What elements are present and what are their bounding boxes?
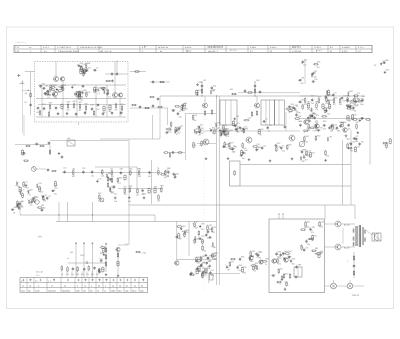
svg-text:1k: 1k xyxy=(212,133,214,135)
svg-text:G51: G51 xyxy=(176,174,179,176)
svg-text:R25: R25 xyxy=(212,128,215,130)
svg-text:u: u xyxy=(91,286,92,288)
svg-text:u 0: u 0 xyxy=(358,51,361,53)
svg-text:T84: T84 xyxy=(143,193,146,195)
svg-text:R71: R71 xyxy=(236,123,239,125)
svg-text:L76: L76 xyxy=(98,179,101,181)
svg-text:R50: R50 xyxy=(386,70,389,72)
svg-text:0,1: 0,1 xyxy=(97,93,100,95)
svg-text:R39: R39 xyxy=(201,224,204,226)
svg-text:C24: C24 xyxy=(311,96,314,98)
svg-text:5k6: 5k6 xyxy=(101,175,104,177)
svg-text:T 5: T 5 xyxy=(125,244,128,246)
svg-text:68: 68 xyxy=(179,239,181,241)
svg-text:0,1: 0,1 xyxy=(325,103,328,105)
svg-text:L75: L75 xyxy=(355,136,358,138)
svg-text:L98: L98 xyxy=(315,101,318,103)
svg-text:68: 68 xyxy=(13,212,15,214)
svg-text:S78: S78 xyxy=(98,193,101,195)
svg-text:G30: G30 xyxy=(317,136,320,138)
svg-text:G91: G91 xyxy=(307,221,310,223)
svg-text:0,1: 0,1 xyxy=(108,97,111,99)
svg-text:2n2: 2n2 xyxy=(194,120,197,122)
svg-text:T83: T83 xyxy=(355,122,358,124)
svg-text:C6: C6 xyxy=(96,68,98,70)
svg-text:68: 68 xyxy=(351,151,353,153)
svg-text:100: 100 xyxy=(305,141,308,143)
svg-text:u040u: u040u xyxy=(111,290,116,292)
svg-text:G39: G39 xyxy=(277,143,280,145)
svg-text:2n2: 2n2 xyxy=(311,103,314,105)
svg-text:47k: 47k xyxy=(86,274,89,276)
svg-text:4k7: 4k7 xyxy=(79,110,82,112)
svg-text:C1: C1 xyxy=(179,111,181,113)
svg-text:10n: 10n xyxy=(351,110,354,112)
svg-text:S64: S64 xyxy=(288,145,291,147)
svg-text:u04u: u04u xyxy=(140,290,144,292)
svg-text:C9: C9 xyxy=(334,92,336,94)
svg-text:G29: G29 xyxy=(67,102,70,104)
svg-text:47k: 47k xyxy=(323,129,326,131)
svg-text:C30: C30 xyxy=(256,144,259,146)
svg-text:47k: 47k xyxy=(226,136,229,138)
svg-text:u4: u4 xyxy=(112,286,114,288)
svg-text:14.1k: 14.1k xyxy=(80,255,84,257)
svg-text:R59: R59 xyxy=(121,104,124,106)
svg-text:S88: S88 xyxy=(87,63,90,65)
svg-text:4 0 u: 4 0 u xyxy=(36,275,40,277)
svg-text:68: 68 xyxy=(349,121,351,123)
svg-text:1k: 1k xyxy=(268,130,270,132)
svg-text:G95: G95 xyxy=(295,105,298,107)
svg-text:5k6: 5k6 xyxy=(330,130,333,132)
svg-text:C8: C8 xyxy=(48,196,50,198)
svg-text:4k7: 4k7 xyxy=(305,160,308,162)
svg-text:1: 1 xyxy=(30,51,31,53)
svg-text:10n: 10n xyxy=(197,262,200,264)
svg-text:5k6: 5k6 xyxy=(236,132,239,134)
svg-text:1.40uu0 e0n 04u 4.0n1 0: 1.40uu0 e0n 04u 4.0n1 0 xyxy=(58,51,79,53)
svg-text:4k7: 4k7 xyxy=(38,188,41,190)
svg-text:⌇: ⌇ xyxy=(347,260,348,263)
svg-text:L39: L39 xyxy=(203,80,206,82)
svg-text:100: 100 xyxy=(243,272,246,274)
svg-text:4k7: 4k7 xyxy=(301,83,304,85)
svg-text:L.Bu.14n 8a 2u 4 0 1 nl 40: L.Bu.14n 8a 2u 4 0 1 nl 40 xyxy=(80,47,102,49)
svg-text:T47: T47 xyxy=(310,118,313,120)
svg-text:47k: 47k xyxy=(250,261,253,263)
svg-text:2 0: 2 0 xyxy=(250,51,253,53)
svg-text:5k6: 5k6 xyxy=(326,155,329,157)
svg-text:40u04u40u: 40u04u40u xyxy=(62,290,70,292)
svg-text:S33: S33 xyxy=(318,96,321,98)
svg-text:100: 100 xyxy=(314,76,317,78)
svg-text:4k7: 4k7 xyxy=(178,133,181,135)
svg-text:T46: T46 xyxy=(297,113,300,115)
svg-text:2n2: 2n2 xyxy=(97,109,100,111)
svg-text:T53: T53 xyxy=(35,197,38,199)
svg-text:G89: G89 xyxy=(298,264,301,266)
svg-text:0 u04n0 1: 0 u04n0 1 xyxy=(342,47,350,49)
svg-text:500: 500 xyxy=(70,252,73,254)
svg-text:S35: S35 xyxy=(217,122,220,124)
svg-text:1u: 1u xyxy=(22,286,24,288)
svg-text:100: 100 xyxy=(327,113,330,115)
svg-text:R91: R91 xyxy=(164,172,167,174)
svg-text:G13: G13 xyxy=(307,101,310,103)
svg-text:10n: 10n xyxy=(308,130,311,132)
svg-text:5 a 1.2: 5 a 1.2 xyxy=(43,47,49,49)
svg-text:10n: 10n xyxy=(355,141,358,143)
svg-text:220: 220 xyxy=(202,268,205,270)
svg-text:S95: S95 xyxy=(353,115,356,117)
svg-text:0,1: 0,1 xyxy=(47,97,50,99)
svg-text:S49: S49 xyxy=(119,178,122,180)
svg-text:C11: C11 xyxy=(330,100,333,102)
svg-text:10n: 10n xyxy=(174,177,177,179)
svg-text:0 u: 0 u xyxy=(51,286,54,288)
svg-text:R51: R51 xyxy=(301,99,304,101)
svg-text:L91: L91 xyxy=(25,182,28,184)
svg-text:47k: 47k xyxy=(81,274,84,276)
svg-text:T42: T42 xyxy=(213,227,216,229)
svg-text:S12: S12 xyxy=(304,227,307,229)
svg-text:S11: S11 xyxy=(280,268,283,270)
svg-text:1u: 1u xyxy=(84,286,86,288)
svg-text:0u: 0u xyxy=(126,286,128,288)
svg-text:-–|⊦-·: -–|⊦-· xyxy=(37,235,43,239)
svg-text:T96: T96 xyxy=(314,79,317,81)
svg-text:1.4 4: 1.4 4 xyxy=(15,51,19,53)
svg-text:1k: 1k xyxy=(265,264,267,266)
svg-text:C93: C93 xyxy=(38,183,41,185)
svg-text:S89: S89 xyxy=(315,248,318,250)
svg-text:c u 4 1 u . 1 n: c u 4 1 u . 1 n xyxy=(15,42,26,44)
svg-text:R84: R84 xyxy=(138,169,141,171)
svg-text:C55: C55 xyxy=(343,96,346,98)
svg-text:T41: T41 xyxy=(63,85,66,87)
svg-text:100: 100 xyxy=(303,65,306,67)
svg-text:G98: G98 xyxy=(339,122,342,124)
svg-text:G32: G32 xyxy=(315,122,318,124)
svg-text:S84: S84 xyxy=(349,91,352,93)
svg-text:2n2: 2n2 xyxy=(339,104,342,106)
svg-text:C93: C93 xyxy=(321,222,324,224)
svg-text:2n2: 2n2 xyxy=(157,201,160,203)
svg-text:L66: L66 xyxy=(299,121,302,123)
svg-text:4k7: 4k7 xyxy=(115,109,118,111)
svg-text:1 × 100: 1 × 100 xyxy=(140,252,146,255)
svg-text:T35: T35 xyxy=(82,168,85,170)
svg-text:C15: C15 xyxy=(114,194,117,196)
svg-text:S78: S78 xyxy=(214,253,217,255)
svg-text:C44: C44 xyxy=(248,118,251,120)
svg-text:10n: 10n xyxy=(91,176,94,178)
svg-text:5k6: 5k6 xyxy=(52,90,55,92)
svg-text:4k7: 4k7 xyxy=(136,194,139,196)
svg-text:G45: G45 xyxy=(208,261,211,263)
svg-text:S50: S50 xyxy=(225,144,228,146)
svg-text:C47: C47 xyxy=(21,201,24,203)
svg-text:G13: G13 xyxy=(291,104,294,106)
svg-text:2n2: 2n2 xyxy=(214,258,217,260)
svg-text:40u: 40u xyxy=(28,290,31,292)
svg-text:L35: L35 xyxy=(91,105,94,107)
svg-text:2n2: 2n2 xyxy=(138,176,141,178)
svg-text:R63: R63 xyxy=(323,121,326,123)
svg-text:R90: R90 xyxy=(278,252,281,254)
svg-text:S48: S48 xyxy=(258,147,261,149)
svg-text:u04u: u04u xyxy=(125,290,129,292)
svg-text:G60: G60 xyxy=(254,265,257,267)
svg-text:S20: S20 xyxy=(213,85,216,87)
svg-text:S47: S47 xyxy=(224,128,227,130)
svg-text:G18: G18 xyxy=(308,239,311,241)
svg-text:L44: L44 xyxy=(305,154,308,156)
svg-text:C74: C74 xyxy=(111,186,114,188)
svg-text:S71: S71 xyxy=(124,187,127,189)
svg-text:S32: S32 xyxy=(244,150,247,152)
svg-text:G88: G88 xyxy=(212,89,215,91)
svg-text:G88: G88 xyxy=(160,186,163,188)
svg-text:40: 40 xyxy=(98,286,100,288)
svg-text:G67: G67 xyxy=(265,259,268,261)
svg-text:1k: 1k xyxy=(257,257,259,259)
svg-text:5k6: 5k6 xyxy=(292,264,295,266)
svg-text:T20: T20 xyxy=(361,141,364,143)
svg-text:C1: C1 xyxy=(265,119,267,121)
svg-text:47k: 47k xyxy=(304,104,307,106)
svg-text:T81: T81 xyxy=(301,78,304,80)
svg-text:0,1: 0,1 xyxy=(207,238,210,240)
svg-text:220: 220 xyxy=(57,92,60,94)
svg-text:G59: G59 xyxy=(129,169,132,171)
svg-text:220: 220 xyxy=(207,258,210,260)
svg-text:C9: C9 xyxy=(73,85,75,87)
svg-text:S63: S63 xyxy=(292,258,295,260)
svg-text:R36: R36 xyxy=(241,257,244,259)
svg-text:R80: R80 xyxy=(385,60,388,62)
svg-text:R88: R88 xyxy=(129,186,132,188)
svg-text:u0n 0 44 . 2: u0n 0 44 . 2 xyxy=(208,51,218,53)
svg-text:100: 100 xyxy=(201,229,204,231)
svg-text:10n: 10n xyxy=(204,275,207,277)
svg-text:0,1: 0,1 xyxy=(213,232,216,234)
svg-text:u1u40: u1u40 xyxy=(35,290,40,292)
svg-text:47k: 47k xyxy=(289,112,292,114)
svg-text:T65: T65 xyxy=(87,92,90,94)
svg-text:R93: R93 xyxy=(320,253,323,255)
svg-text:2n2: 2n2 xyxy=(200,133,203,135)
svg-text:01: 01 xyxy=(330,51,332,53)
svg-text:4k7: 4k7 xyxy=(333,104,336,106)
svg-text:5k6: 5k6 xyxy=(203,251,206,253)
svg-text:R16: R16 xyxy=(239,265,242,267)
svg-text:41: 41 xyxy=(270,51,272,53)
svg-text:68: 68 xyxy=(195,134,197,136)
svg-text:14: 14 xyxy=(64,286,66,288)
svg-text:5k6: 5k6 xyxy=(111,191,114,193)
svg-text:2 0 41 0: 2 0 41 0 xyxy=(314,47,321,49)
svg-text:1k: 1k xyxy=(360,104,362,106)
svg-text:R71: R71 xyxy=(80,63,83,65)
svg-text:u4: u4 xyxy=(29,286,31,288)
svg-text:T11: T11 xyxy=(263,145,266,147)
svg-text:10u: 10u xyxy=(90,290,93,292)
svg-text:T70: T70 xyxy=(234,146,237,148)
svg-text:S71: S71 xyxy=(224,125,227,127)
svg-text:1 n: 1 n xyxy=(186,50,189,52)
svg-text:04: 04 xyxy=(141,286,143,288)
svg-text:S26: S26 xyxy=(73,101,76,103)
svg-text:T63: T63 xyxy=(209,225,212,227)
svg-text:4 u: 4 u xyxy=(44,51,47,53)
svg-text:4k7: 4k7 xyxy=(148,176,151,178)
svg-text:S88: S88 xyxy=(313,114,316,116)
svg-text:0,1: 0,1 xyxy=(169,132,172,134)
svg-text:T2: T2 xyxy=(196,222,198,224)
svg-text:1 0 .: 1 0 . xyxy=(35,281,39,283)
svg-text:T6: T6 xyxy=(157,168,159,170)
svg-text:47k: 47k xyxy=(307,109,310,111)
svg-text:47k: 47k xyxy=(337,131,340,133)
svg-text:L77: L77 xyxy=(22,190,25,192)
svg-text:u04.1u0u4: u04.1u0u4 xyxy=(48,290,56,292)
svg-text:L13: L13 xyxy=(63,168,66,170)
svg-text:1u: 1u xyxy=(104,290,106,292)
svg-text:0,1: 0,1 xyxy=(225,147,228,149)
svg-text:u 2 04 4n0: u 2 04 4n0 xyxy=(292,51,301,53)
svg-text:0,1: 0,1 xyxy=(44,200,47,202)
svg-text:10n: 10n xyxy=(282,151,285,153)
svg-text:7Z69 12: 7Z69 12 xyxy=(352,295,359,297)
svg-text:G33: G33 xyxy=(154,187,157,189)
svg-text:4k7: 4k7 xyxy=(96,274,99,276)
svg-text:G12: G12 xyxy=(311,152,314,154)
svg-text:2n2: 2n2 xyxy=(317,67,320,69)
svg-text:u04.u: u04.u xyxy=(21,290,25,292)
svg-text:4: 4 xyxy=(77,286,78,288)
svg-text:C89: C89 xyxy=(42,84,45,86)
svg-text:T30: T30 xyxy=(313,72,316,74)
svg-text:C71: C71 xyxy=(305,248,308,250)
svg-text:G46: G46 xyxy=(61,88,64,90)
svg-text:100: 100 xyxy=(164,177,167,179)
svg-text:10n: 10n xyxy=(343,101,346,103)
svg-text:T66: T66 xyxy=(312,227,315,229)
svg-text:1k: 1k xyxy=(29,195,31,197)
svg-text:40u1: 40u1 xyxy=(118,290,122,292)
svg-text:G82: G82 xyxy=(202,256,205,258)
svg-text:L97: L97 xyxy=(44,195,47,197)
svg-text:T86: T86 xyxy=(41,205,44,207)
svg-text:R2: R2 xyxy=(25,102,27,104)
svg-text:220: 220 xyxy=(329,95,332,97)
svg-text:G80: G80 xyxy=(317,62,320,64)
svg-text:G30: G30 xyxy=(256,80,259,82)
svg-text:u4: u4 xyxy=(97,290,99,292)
svg-text:47k: 47k xyxy=(211,275,214,277)
svg-text:S18: S18 xyxy=(285,273,288,275)
svg-text:68: 68 xyxy=(354,111,356,113)
svg-text:C22: C22 xyxy=(334,124,337,126)
svg-text:5k6: 5k6 xyxy=(108,178,111,180)
svg-text:C37: C37 xyxy=(257,251,260,253)
svg-text:220: 220 xyxy=(334,98,337,100)
svg-text:u04n: u04n xyxy=(76,290,80,292)
svg-text:47k: 47k xyxy=(128,201,131,203)
svg-text:4k7: 4k7 xyxy=(242,158,245,160)
svg-text:S41: S41 xyxy=(230,89,233,91)
svg-text:0,1: 0,1 xyxy=(27,188,30,190)
svg-text:1: 1 xyxy=(105,286,106,288)
svg-text:T11: T11 xyxy=(20,205,23,207)
svg-text:R51: R51 xyxy=(43,104,46,106)
svg-text:n0 2e0 1.0u: n0 2e0 1.0u xyxy=(158,47,168,49)
svg-text:C64: C64 xyxy=(199,129,202,131)
svg-text:u.n: u.n xyxy=(29,47,32,49)
svg-text:1k: 1k xyxy=(233,152,235,154)
svg-text:68: 68 xyxy=(315,253,317,255)
svg-text:T17: T17 xyxy=(231,262,234,264)
svg-text:S36: S36 xyxy=(304,59,307,61)
svg-text:S40: S40 xyxy=(100,253,103,255)
svg-text:u10: u10 xyxy=(83,290,86,292)
svg-text:L99: L99 xyxy=(329,137,332,139)
svg-text:S2: S2 xyxy=(211,270,213,272)
svg-text:4k7: 4k7 xyxy=(195,227,198,229)
svg-text:G51: G51 xyxy=(182,226,185,228)
svg-text:4 24n0: 4 24n0 xyxy=(250,47,256,49)
svg-text:100: 100 xyxy=(277,257,280,259)
svg-text:100: 100 xyxy=(76,274,79,276)
svg-text:47k: 47k xyxy=(320,227,323,229)
svg-text:G39: G39 xyxy=(49,102,52,104)
svg-text:S57: S57 xyxy=(79,102,82,104)
svg-text:S55: S55 xyxy=(314,235,317,237)
svg-text:6 e0.2n: 6 e0.2n xyxy=(185,47,191,49)
svg-text:100: 100 xyxy=(54,193,57,195)
svg-text:L17: L17 xyxy=(215,129,218,131)
svg-text:8.0: 8.0 xyxy=(330,47,333,49)
svg-text:C53: C53 xyxy=(202,263,205,265)
svg-text:0,1: 0,1 xyxy=(315,130,318,132)
svg-text:100: 100 xyxy=(179,116,182,118)
svg-text:L78: L78 xyxy=(194,115,197,117)
svg-text:220: 220 xyxy=(40,192,43,194)
svg-text:10n: 10n xyxy=(307,244,310,246)
svg-text:2n2: 2n2 xyxy=(114,201,117,203)
svg-text:1k: 1k xyxy=(176,134,178,136)
svg-text:14: 14 xyxy=(119,286,121,288)
svg-text:G90: G90 xyxy=(198,90,201,92)
svg-text:0,1: 0,1 xyxy=(119,183,122,185)
svg-text:G35: G35 xyxy=(14,207,17,209)
svg-text:T96: T96 xyxy=(207,268,210,270)
svg-text:R41: R41 xyxy=(288,251,291,253)
svg-text:T21: T21 xyxy=(357,93,360,95)
svg-text:4k7: 4k7 xyxy=(72,176,75,178)
svg-text:u4: u4 xyxy=(134,286,136,288)
svg-text:40u1u: 40u1u xyxy=(132,290,137,292)
svg-text:u n u 4 0 2 e 1 n 4: u n u 4 0 2 e 1 n 4 xyxy=(208,46,223,48)
svg-text:T42: T42 xyxy=(202,141,205,143)
svg-text:1 c Tr807 4Tt u5: 1 c Tr807 4Tt u5 xyxy=(57,46,71,49)
svg-text:10n: 10n xyxy=(30,204,33,206)
svg-text:100: 100 xyxy=(80,97,83,99)
svg-text:10n: 10n xyxy=(315,109,318,111)
svg-text:T94: T94 xyxy=(252,251,255,253)
